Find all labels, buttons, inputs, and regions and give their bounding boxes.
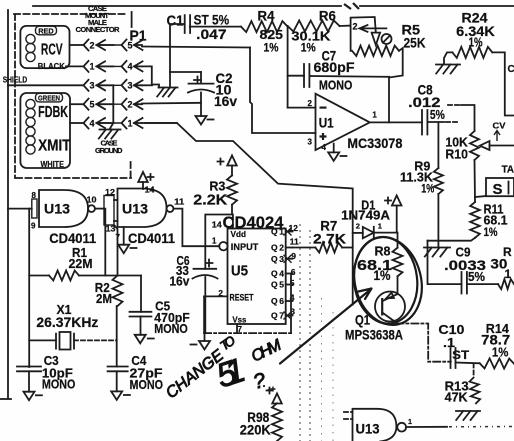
Q1 emitter arrow [386,293,394,299]
U5 pin 14 number [212,220,222,230]
C8 label [418,83,433,98]
svg-text:MC33078: MC33078 [347,136,402,151]
svg-text:1%: 1% [492,346,509,360]
R13 value 47K [445,391,468,405]
svg-text:1: 1 [378,222,382,231]
wire C5 bottom lead [140,317,142,335]
wire node to R8 [397,233,399,248]
svg-text:Vdd: Vdd [231,229,247,239]
wire BLACK to pin 1 [66,65,84,67]
svg-text:2: 2 [90,40,95,50]
U13b input tie bar [104,196,114,226]
capacitor C5 [130,312,152,317]
C3 value 10pF [42,366,73,381]
resistor R14 [480,358,514,368]
U5 pin 7 number [238,325,243,334]
C2 value 10 [216,82,232,98]
U5 input bubble [219,242,227,250]
resistor R11 [470,202,480,238]
R8 tolerance 1% [374,268,391,283]
resistor R30 partial [498,279,514,289]
svg-text:CONNECTOR: CONNECTOR [76,25,121,34]
R10 CV arrow [494,131,500,142]
R9 value 11.3K [400,170,434,185]
wire R4/R6 junction down to U1 pin2 [287,26,289,108]
resistor R7 [315,243,342,253]
R7 value 2.7K [313,230,346,246]
svg-text:1%: 1% [484,225,498,239]
svg-text:S: S [493,181,503,198]
U13d input stubs [344,412,353,419]
R6 tolerance 1% [301,41,316,55]
R3 value 2.2K [193,192,228,208]
svg-text:FDBK: FDBK [38,104,68,121]
U13b input stubs [114,199,118,201]
P1 left pin 3 chevron [84,80,95,91]
C9 tolerance 5% [468,270,485,284]
resistor R98 [272,403,282,441]
svg-text:MONO: MONO [42,378,76,392]
C1 value ST 5% [194,12,230,28]
P1 right pin 2 chevron [122,99,133,110]
wire U5 ground bus [204,332,291,334]
wire C4 bottom lead [116,371,118,391]
C7 value 680pF [314,60,355,75]
ground left of R24 [436,65,460,74]
XMIT label [38,138,71,155]
supply arrow above R8 [385,196,401,206]
svg-text:2: 2 [356,222,360,231]
wire R10 top dashes [447,104,459,106]
capacitor C3 [17,367,41,372]
svg-text:1%: 1% [264,41,279,55]
C7 label [322,49,337,64]
R10 CV label [493,122,507,131]
C3 label [44,354,59,368]
wire U1 pin4 ground stem [333,144,335,153]
C10 value ST [452,348,470,362]
capacitor C2 [188,84,214,93]
ground below C5 [135,335,154,344]
R14 tolerance 1% [492,346,509,360]
ground below C4 [111,391,130,400]
R24 label [462,11,489,26]
resistor R13 [470,378,481,404]
svg-text:2.2K: 2.2K [193,192,228,208]
svg-text:WHITE: WHITE [41,159,65,169]
R8 value 68.1 [357,258,392,274]
C6 value 16v [169,274,190,289]
hand-drawn circle around R8/Q1 [349,233,422,327]
U5 output Q3 stub pin 9 [271,251,296,264]
svg-text:26.37KHz: 26.37KHz [36,314,98,330]
op-amp U1 [316,94,370,150]
FDBK coil [26,99,35,126]
P1 right pin 1 chevron [122,118,133,129]
Q1 collector lead [382,313,396,323]
U13d output pin number [408,419,412,426]
svg-text:5: 5 [90,100,95,110]
wire R9 top lead [437,122,439,168]
Q1 part MPS3638A [345,327,403,343]
U13b pin 13 [106,225,117,234]
svg-text:14: 14 [145,185,156,194]
scan blob on top border [344,3,359,9]
svg-text:1: 1 [128,118,133,128]
R14 label [486,321,510,336]
svg-text:220K: 220K [240,422,271,438]
R11 label [484,203,504,217]
handwritten TO [217,333,238,354]
svg-text:RESET: RESET [230,292,254,302]
P1 inter-pin wire [112,85,114,123]
wire C6 bottom lead [204,277,206,333]
wire crystal to R2/C4 net [74,339,117,341]
ground below U5 [191,341,211,350]
svg-text:U13: U13 [44,202,71,217]
svg-text:12: 12 [289,223,299,233]
P1 right pin 4 chevron [122,61,133,72]
NAND gate U13d [353,409,397,441]
svg-text:680pF: 680pF [314,60,355,75]
U13a pin 8 [32,191,37,200]
wire input to U13a [8,208,32,210]
R6 label [319,8,336,23]
svg-text:2.7K: 2.7K [313,230,346,246]
RCV coil [26,34,35,61]
wire pin14 stub [232,215,234,229]
svg-text:1: 1 [212,237,217,246]
R10 value 10K [445,135,468,150]
wire R24 right lead [492,52,514,115]
svg-text:C1: C1 [167,13,184,30]
U5 RESET pin label [230,292,254,302]
dashed enclosure box [14,12,132,178]
svg-text:9: 9 [291,251,296,261]
C10 value .1 [443,335,455,350]
U1 plus sign [320,133,327,140]
wire D1 cathode to supply node [374,232,398,234]
wire U5 reset [204,295,227,297]
R30 partial tolerance [505,267,512,281]
D1 part 1N749A [341,209,390,223]
wire R9 bottom lead [437,194,439,247]
U5 output Q7 stub pin 3 [271,306,295,320]
capacitor C10 [451,348,456,368]
P1 right pin 5 arrow [134,40,143,50]
svg-text:2: 2 [353,22,358,32]
wire SHIELD to pin 3 [8,84,84,86]
wire R8 to Q1 emitter [397,276,399,294]
svg-text:R8: R8 [375,244,391,259]
U5 unused outputs bus [290,274,292,334]
svg-text:4: 4 [128,62,133,72]
partial text at right edge [508,64,514,75]
wire R11 bottom lead [428,238,476,241]
Q1 emitter lead [383,294,398,301]
wire C2 node ground stem [169,72,171,88]
U1 part number MC33078 [347,136,402,151]
sheet left border [7,10,9,398]
resistor R4 [241,21,288,32]
svg-text:4: 4 [90,118,95,128]
resistor R8 [393,248,403,277]
P1 row 4 link wire [97,103,123,105]
P1 left pin 1 chevron [84,61,95,72]
U1 pin 1 number [372,111,377,120]
R4 tolerance 1% [264,41,279,55]
SHIELD label [3,74,28,84]
U5 pin 2 number [218,288,223,298]
case ground stem [110,123,113,129]
wire P1 pin5 net to U1 pin3 [250,48,316,134]
transformer FDBK/XMIT winding box [20,93,70,168]
C5 value MONO [154,322,188,336]
wire U13d output [406,426,447,428]
C2 label [216,70,233,86]
P1 right pin 1 arrow [134,118,143,128]
wire supply to R8 [396,206,398,233]
FDBK label [38,104,68,121]
wire C1 to R4 [190,26,241,28]
connector P1 designator [130,29,147,45]
svg-text:MONO: MONO [154,322,188,336]
svg-text:R6: R6 [319,8,336,23]
resistor R9 [434,168,443,194]
handwritten OHM [249,336,285,365]
P1 right pin 4 arrow [134,61,143,71]
P1 left pin 5 chevron [84,99,95,110]
U5 part CD4024 [223,214,285,232]
svg-text:U13: U13 [122,202,149,217]
svg-text:CD4011: CD4011 [128,231,175,246]
svg-text:1N749A: 1N749A [341,209,390,223]
wire U1 output [370,121,422,123]
R14 value 78.7 [481,333,510,348]
svg-text:R4: R4 [258,9,275,24]
U13a output bubble [88,205,95,212]
wire pin1 row [142,122,177,124]
supply arrow above R98 [267,388,282,404]
C1 value .047 [196,26,227,42]
wire C8 right dashes [446,121,460,123]
potentiometer R5 element [352,46,399,56]
U13b output bubble [167,205,174,212]
GREEN label tag [36,93,63,102]
wire R7 to node [342,247,353,249]
U5 output Q4 stub pin 6 [271,267,296,279]
U13b designator [122,202,149,217]
C4 value MONO [130,378,164,392]
R2 value 2M [96,291,112,306]
P1 left pin 5 arrow [97,99,114,109]
capacitor C9 [462,272,467,294]
svg-text:22M: 22M [69,256,93,271]
potentiometer R5 box [351,17,376,51]
U13a part CD4011 [49,231,96,246]
P1 left pin 3 arrow [97,80,114,90]
P1 row 1 link wire [97,44,123,46]
resistor R3 [227,175,237,204]
U13b pin 14 label [145,185,156,194]
NAND gate U13a [39,190,88,227]
wire U13d output dotted [449,426,514,428]
sheet top border [33,5,341,7]
U5 output Q2 stub pin 11 [271,236,299,252]
R5 pin 2 label [353,22,358,32]
ground near C2 node [157,88,177,97]
P1 right pin 3 chevron [122,80,133,91]
wire R3 to Vdd pin14 and C6 [205,205,232,269]
U13b pin7 ground stem [123,227,125,245]
P1 left pin 4 arrow [97,118,114,128]
svg-text:RED: RED [38,26,54,35]
C4 label [131,354,146,368]
C3 value MONO [42,378,76,392]
XMIT coil [26,127,35,154]
wire GREEN to pin 5 [70,103,84,105]
svg-text:2: 2 [128,100,133,110]
R5 label [402,22,421,38]
BLACK label [38,61,66,71]
wire R13 top lead [473,364,475,378]
R10 wiper arrow [480,141,514,150]
svg-text:4: 4 [322,143,327,152]
C7 value MONO [319,78,353,93]
svg-text:U13: U13 [356,422,380,437]
R13 label [445,380,469,394]
TA label [502,165,514,176]
C9 value .0033 [444,258,487,273]
U5 Q1 unused X mark [284,228,292,236]
potentiometer R10 element [470,131,479,160]
capacitor C1 [185,15,190,33]
wire P1 pin1 long run to Q1 base [145,123,353,305]
capacitor C7 [304,64,309,87]
resistor R2 [113,276,123,307]
supply arrow above R3 [218,156,237,166]
svg-text:MONO: MONO [319,78,353,93]
U5 output Q5 stub pin 5 [271,278,295,290]
svg-text:9: 9 [31,222,36,231]
svg-text:3: 3 [128,81,133,91]
wire U5 Vss stub [236,324,238,333]
wire C2 bottom lead [200,93,202,117]
capacitor C6 polarized [193,269,218,279]
wire left net vertical [28,209,30,367]
R4 value 825 [260,27,284,42]
Q1 base bar [381,298,383,316]
sheet left border bottom tick [0,398,11,400]
wire C5 top lead [140,276,142,312]
wire XMIT to pin 4 [70,122,84,124]
svg-text:16v: 16v [214,93,237,109]
U5 INPUT pin label [231,242,259,252]
U13d output bubble [397,423,406,432]
svg-text:25K: 25K [404,35,426,51]
U13b Vdd stem [142,182,144,189]
svg-text:2: 2 [308,99,313,108]
svg-text:1%: 1% [374,268,391,283]
wire U13a output to U13b input [95,208,104,210]
wire U1 pin2 input [288,107,316,109]
D1 pin 1 [378,222,382,231]
C5 label [155,299,170,314]
C4 value 27pF [130,366,163,381]
U1 designator [319,116,334,131]
ground below C2 [196,116,214,125]
svg-text:U5: U5 [231,264,248,280]
svg-text:1: 1 [505,267,512,281]
C6 plus sign [206,260,213,267]
R4 label [258,9,275,24]
R5 pin 2 arrow [360,25,387,32]
U1 pin 3 number [308,138,313,147]
transistor Q1 body [375,292,405,322]
U1 pin 2 number [308,99,313,108]
wire R2 bottom to C4 [116,306,118,367]
R11 value 68.1 [484,213,508,228]
U5 output Q1 stub pin 12 [271,223,298,237]
svg-text:C: C [508,64,514,75]
U13b part CD4011 [128,231,175,246]
C9 label [456,246,471,260]
crystal X1 label [57,302,72,317]
U13a input tie bar [32,199,37,218]
U5 Q7 unused X mark [284,312,292,320]
R30 partial value 30 [490,257,507,272]
wire C2 top lead [200,72,202,84]
svg-text:16v: 16v [169,274,190,289]
wire R10 bottom lead [474,160,477,202]
svg-text:TA: TA [502,165,514,176]
wire R24 left lead [444,52,452,63]
hand-drawn circle second stroke [345,230,431,332]
resistor R6 [288,21,340,32]
wire arrow to R3 [231,166,233,176]
wire to R1 [29,275,49,277]
switch S1 box [486,178,514,196]
svg-text:INPUT: INPUT [231,242,259,252]
R98 value 220K [240,422,271,438]
R6 value 30.1K [291,28,331,43]
svg-text:5: 5 [128,40,133,50]
R24 tolerance 1% [469,36,483,50]
U13a designator [44,202,71,217]
wire S1 box to R11 [475,196,486,197]
capacitor C4 [108,367,128,372]
wire C10 right to R14 [456,362,480,365]
svg-text:12: 12 [105,188,116,197]
CASE MOUNT MALE CONNECTOR label [76,4,121,34]
R10 label [445,147,468,162]
svg-text:5%: 5% [468,270,485,284]
svg-text:1%: 1% [421,182,434,196]
capacitor C8 [422,110,427,135]
svg-text:3: 3 [308,138,313,147]
wire U5 Vss/reset down [203,296,205,333]
S1 label [493,181,503,198]
U13d designator [356,422,380,437]
R24 value 6.34K [456,23,495,39]
svg-text:MPS3638A: MPS3638A [345,327,403,343]
R2 label [95,281,110,295]
P1 row 5 link wire [97,122,123,124]
hand-drawn dots [263,385,276,392]
C5 value 470pF [154,310,190,325]
R7 label [320,219,337,234]
wire U13b input net down [114,225,118,276]
